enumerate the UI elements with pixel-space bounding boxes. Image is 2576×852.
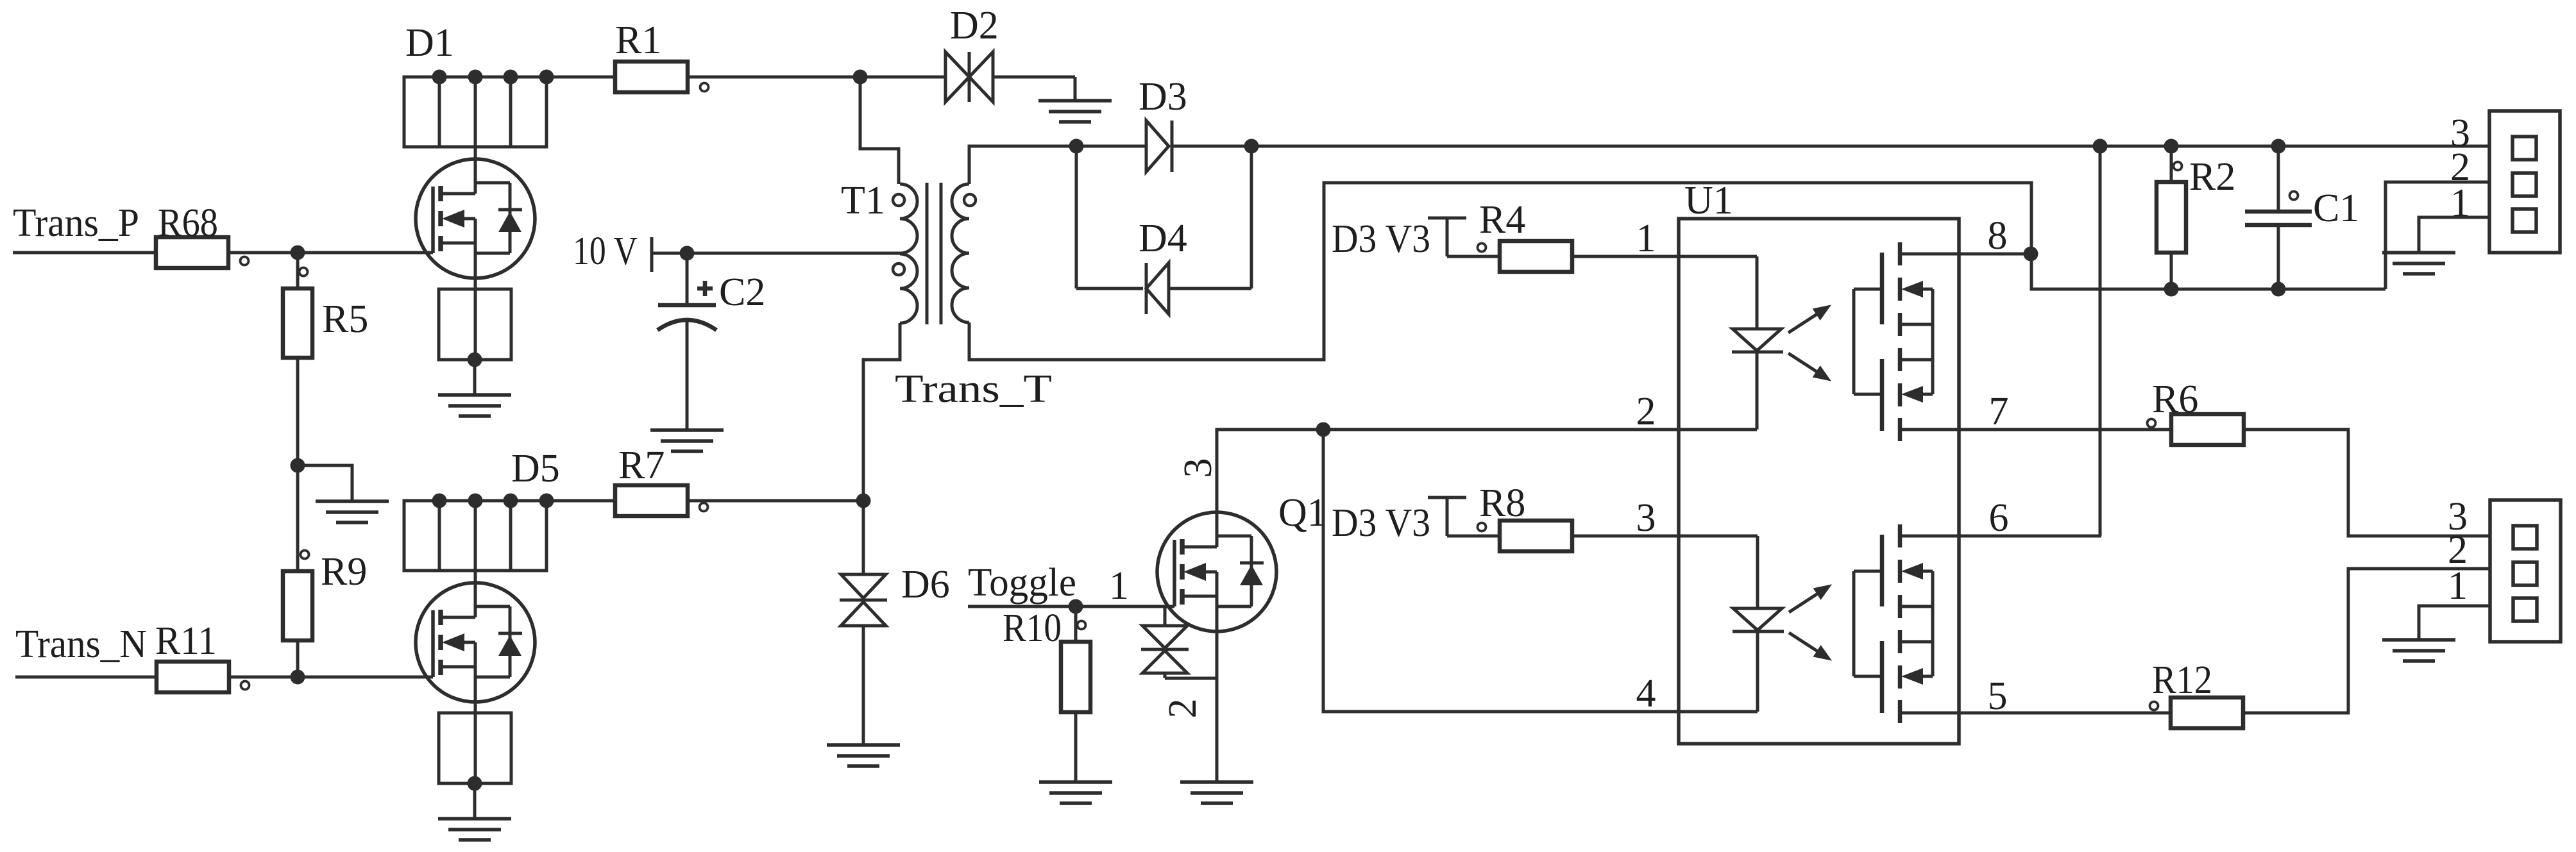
svg-text:D5: D5 (511, 447, 560, 490)
wire pin2 node down to pin4 (1323, 430, 1758, 712)
light arrows channel 2 (1785, 578, 1836, 667)
transistor M2 (416, 571, 535, 713)
wire U1 pin7 to R6 (1900, 428, 2171, 431)
resistor R1 (615, 19, 709, 92)
junction C1/bottom rail (2271, 282, 2286, 297)
wire Q1 drain to pin2 node (1217, 430, 1323, 547)
net label D3V3 row2 (1332, 497, 1500, 545)
svg-text:T1: T1 (841, 179, 885, 222)
resistor R8 (1478, 481, 1573, 551)
transistor M1 (416, 147, 535, 289)
svg-text:6: 6 (1989, 496, 2009, 540)
wire M1 source to ground (473, 360, 477, 395)
svg-text:2: 2 (1636, 390, 1656, 433)
svg-text:R10: R10 (1003, 606, 1062, 650)
junction rail/R2 top (2164, 139, 2179, 154)
connector J2 (2490, 500, 2561, 642)
svg-text:1: 1 (1636, 217, 1656, 260)
resistor R12 (2150, 658, 2244, 728)
svg-text:D3 V3: D3 V3 (1332, 217, 1430, 261)
svg-text:D6: D6 (901, 563, 950, 606)
connector J1 (2489, 111, 2560, 253)
junction rail/pin6 riser (2093, 139, 2108, 154)
junction gate node N (291, 670, 305, 685)
wire M1 source rect (439, 289, 511, 360)
LED U1 channel 1 (1732, 256, 1783, 430)
svg-text:3: 3 (1176, 458, 1220, 478)
junction pin8 node (2024, 247, 2038, 262)
resistor R9 (283, 465, 367, 640)
svg-text:R11: R11 (155, 619, 217, 663)
svg-text:1: 1 (1109, 564, 1129, 608)
svg-text:C1: C1 (2313, 187, 2359, 230)
light arrows channel 1 (1784, 299, 1835, 387)
resistor R7 (615, 444, 708, 516)
wire T1 secondary top (969, 146, 1076, 184)
svg-text:R1: R1 (615, 19, 661, 62)
wire C1 bottom (2277, 225, 2280, 289)
junction Q1 drain / U1 pin2 (1316, 422, 1331, 437)
ground mid-tap (316, 501, 389, 522)
svg-text:D2: D2 (950, 4, 999, 47)
diode D4 (1076, 217, 1251, 314)
junction D3 right (1244, 139, 1259, 154)
junction rail/C1 top (2271, 139, 2286, 154)
ground R10 (1039, 782, 1112, 803)
svg-text:8: 8 (1988, 214, 2008, 258)
resistor R11 (155, 619, 250, 692)
svg-text:4: 4 (1636, 672, 1656, 715)
svg-text:3: 3 (1636, 496, 1656, 540)
svg-text:D4: D4 (1139, 217, 1187, 260)
svg-text:R4: R4 (1479, 198, 1525, 242)
resistor R68 (156, 201, 249, 268)
wire R9 to gate node N (296, 640, 300, 677)
svg-text:R2: R2 (2189, 155, 2235, 199)
diode array D5 (404, 494, 554, 571)
junction R7/T1/D6 (856, 494, 871, 508)
wire Toggle input (968, 605, 1174, 608)
capacitor C2 (657, 253, 765, 330)
wire top rail (1251, 145, 2489, 148)
resistor R4 (1478, 198, 1573, 272)
wire D2 to ground (1074, 77, 1077, 101)
wire R68 to M1 gate (228, 251, 433, 255)
svg-text:Trans_T: Trans_T (895, 367, 1052, 411)
wire 10V to T1 mid tap (652, 252, 901, 255)
photoMOS pair 2 (1854, 524, 1933, 723)
diode D2 (bidirectional TVS) (860, 4, 1075, 102)
diode D3 (1076, 75, 1251, 172)
wire T1 primary bottom (863, 323, 900, 501)
wire Trans_N input (15, 676, 157, 679)
ground J1 (2382, 253, 2455, 274)
wire T1 primary top (860, 77, 899, 184)
svg-text:D3 V3: D3 V3 (1332, 501, 1430, 545)
ground D2 (1038, 101, 1112, 122)
junction gate node P (291, 246, 305, 260)
junction R2/bottom rail (2164, 282, 2179, 297)
svg-text:U1: U1 (1684, 179, 1733, 222)
net label D3V3 row1 (1332, 217, 1500, 261)
wire U1 pin8 (1900, 253, 2031, 256)
wire R11 to M2 gate (229, 676, 433, 679)
wire R5 to mid junction (296, 358, 300, 465)
wire M2 source to ground (473, 783, 477, 819)
diode TVS Q1 gate (1141, 606, 1217, 678)
ground D6 (827, 745, 900, 766)
wire T1 secondary bottom to pin8 rail (969, 183, 2031, 360)
resistor R5 (283, 253, 368, 358)
wire R10 to ground (1074, 712, 1078, 782)
svg-text:7: 7 (1989, 390, 2009, 433)
wire D4 branch right (1250, 146, 1253, 288)
wire R1 to D2 junction (688, 76, 860, 79)
svg-text:10 V: 10 V (573, 230, 638, 273)
ground M2 (438, 819, 511, 840)
LED U1 channel 2 (1733, 536, 1784, 712)
wire Q1 source to ground (1216, 642, 1219, 782)
svg-text:D1: D1 (405, 21, 454, 65)
junction R5/R9 (291, 458, 305, 473)
resistor R2 (2157, 146, 2235, 253)
svg-text:Toggle: Toggle (968, 561, 1076, 605)
resistor R10 (1003, 606, 1090, 712)
svg-text:Trans_N: Trans_N (15, 622, 147, 666)
svg-text:R7: R7 (618, 444, 665, 487)
junction R1/D2/T1 (853, 70, 868, 85)
ground Q1 (1180, 782, 1253, 803)
junction M2 source (468, 776, 482, 791)
diode array D1 (404, 70, 554, 147)
wire bottom rail to connector1 pin2 (2385, 182, 2489, 289)
svg-text:C2: C2 (719, 271, 765, 314)
svg-text:R12: R12 (2152, 658, 2212, 702)
wire R12 to connector2 pin2 (2243, 569, 2490, 713)
wire mid junction to ground tap (298, 465, 352, 501)
junction Toggle/R10 (1069, 599, 1083, 614)
junction D3 left (1069, 139, 1084, 154)
wire pin6 riser (2099, 146, 2102, 536)
ground M1 (438, 395, 511, 416)
svg-text:5: 5 (1988, 674, 2008, 718)
svg-text:D3: D3 (1139, 75, 1187, 119)
svg-text:R68: R68 (158, 201, 218, 245)
svg-text:R9: R9 (321, 550, 367, 594)
transistor Q1 (1157, 500, 1276, 642)
junction C2 tap (680, 246, 695, 261)
wire D5 to R7 (547, 499, 615, 503)
wire D4 branch left (1075, 146, 1078, 288)
svg-text:Trans_P: Trans_P (13, 201, 139, 245)
ground J2 (2382, 640, 2455, 661)
diode D6 (bidirectional TVS) (840, 501, 950, 626)
wire U1 pin2 / LED1 cathode (1323, 428, 1757, 431)
wire D6 to ground (862, 626, 865, 745)
wire R8 to U1 pin3 / LED2 anode (1572, 535, 1758, 538)
wire D1 to R1 (547, 76, 615, 79)
resistor R6 (2148, 378, 2244, 445)
capacitor C1 (2245, 146, 2359, 230)
svg-text:R5: R5 (322, 297, 368, 341)
svg-text:2: 2 (1161, 699, 1205, 719)
svg-text:Q1: Q1 (1278, 491, 1327, 535)
wire Trans_P input (13, 251, 156, 255)
wire U1 pin5 to R12 (1900, 712, 2171, 715)
svg-text:R6: R6 (2152, 378, 2198, 421)
wire connector1 pin1 to ground (2419, 217, 2489, 253)
wire R7 to D6 junction (688, 499, 863, 503)
ground C2 (650, 430, 724, 451)
wire R6 to connector2 pin3 (2244, 430, 2490, 536)
wire pin8 down to bottom rail (2031, 254, 2385, 289)
wire U1 pin6 (1900, 535, 2101, 538)
svg-text:1: 1 (2448, 564, 2468, 608)
wire M2 source rect (439, 713, 511, 783)
transformer T1 (841, 179, 1052, 411)
svg-text:R8: R8 (1479, 481, 1525, 525)
wire R2 bottom (2170, 253, 2173, 289)
junction M1 source (468, 353, 482, 367)
wire R4 to U1 pin1 / LED1 anode (1572, 255, 1757, 258)
op-amp U1 (photovoltaic SSR) box (1679, 219, 1959, 744)
photoMOS pair 1 (1854, 242, 1933, 441)
wire C2 to ground (686, 320, 689, 430)
wire connector2 pin1 to ground (2419, 606, 2490, 640)
node 10 V (573, 230, 652, 273)
